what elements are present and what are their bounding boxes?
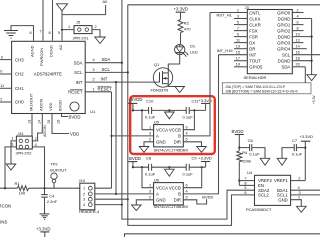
svg-text:14: 14 <box>296 45 300 49</box>
svg-text:2: 2 <box>95 25 97 29</box>
U1 right pin labels <box>68 60 83 94</box>
capacitor C11 <box>185 107 187 114</box>
wire SCL1 off right edge <box>291 194 320 196</box>
wire MUXOUT pin <box>31 114 33 137</box>
svg-text:1: 1 <box>149 184 151 188</box>
svg-text:3: 3 <box>299 191 301 195</box>
svg-text:CH1: CH1 <box>15 86 24 91</box>
svg-text:3: 3 <box>93 68 95 72</box>
svg-text:C6: C6 <box>248 138 254 143</box>
wire BVDD pin <box>62 113 69 116</box>
svg-text:A0: A0 <box>58 44 63 50</box>
wire CH2 <box>0 73 12 75</box>
svg-text:PCA9306DCT: PCA9306DCT <box>246 207 272 212</box>
svg-text:ONS: ONS <box>0 220 7 225</box>
svg-text:AGND: AGND <box>30 45 35 57</box>
wire DGND pin <box>52 0 54 41</box>
svg-text:4: 4 <box>186 132 188 136</box>
svg-text:2: 2 <box>0 98 2 102</box>
resistor R1 <box>0 187 18 189</box>
svg-text:+3.3VD: +3.3VD <box>174 7 188 12</box>
U4 pin numbers <box>244 177 246 195</box>
pin SDA wire <box>85 62 122 64</box>
svg-text:R4: R4 <box>242 150 248 155</box>
wire SDA vertical to U4 SDA2 <box>122 0 255 219</box>
svg-text:Q1: Q1 <box>154 62 160 67</box>
wire PWRCON pin <box>42 0 44 41</box>
U1 bottom pin labels rotated <box>29 93 63 111</box>
svg-text:11: 11 <box>236 39 240 43</box>
wire ADCIN pin <box>32 114 42 141</box>
svg-text:J10: J10 <box>79 178 86 183</box>
wire U4 GND <box>291 200 302 207</box>
svg-text:RCON: RCON <box>0 203 11 208</box>
svg-text:0.1uF: 0.1uF <box>249 151 260 156</box>
svg-text:GPIO2: GPIO2 <box>277 28 291 33</box>
svg-text:0.1uF: 0.1uF <box>183 114 194 119</box>
level shifter U5 SN74LVC1T45DBV <box>154 125 184 147</box>
jumper J5 JPR-2X1 <box>74 26 92 34</box>
svg-text:J3A (TOP) = SAM TSM-110-01-L-D: J3A (TOP) = SAM TSM-110-01-L-DV-P <box>225 85 286 89</box>
svg-text:SN74LVC1T45DBV: SN74LVC1T45DBV <box>154 148 189 153</box>
connector J3 SERIALHDR <box>247 10 292 74</box>
bottom pin numbers rotated 13 14 15 16 <box>28 120 61 124</box>
wire U5 VCCA <box>142 110 154 129</box>
svg-text:4: 4 <box>93 58 95 62</box>
svg-text:6: 6 <box>244 191 246 195</box>
wire SDA1 off right edge <box>291 189 320 191</box>
svg-text:GND: GND <box>278 197 288 202</box>
node A0 junction <box>61 29 63 31</box>
svg-text:BUFOUT: BUFOUT <box>50 168 67 173</box>
ground C6 <box>260 158 270 165</box>
wire CH3 <box>0 59 12 61</box>
svg-text:CNTL: CNTL <box>249 10 261 15</box>
U5 pin numbers <box>149 126 188 142</box>
wire INT vertical <box>115 82 117 194</box>
svg-text:2: 2 <box>298 177 300 181</box>
RESET overline inside <box>70 88 83 90</box>
svg-text:DX: DX <box>249 40 255 45</box>
svg-text:0.1uF: 0.1uF <box>292 151 303 156</box>
svg-text:5: 5 <box>58 31 60 35</box>
svg-text:7: 7 <box>244 177 246 181</box>
svg-text:FDN337N: FDN337N <box>151 88 169 93</box>
svg-text:8: 8 <box>49 31 51 35</box>
wire J11 pin3 down to PWRCON <box>5 147 16 188</box>
ground U4 <box>297 206 307 212</box>
svg-text:VREF1: VREF1 <box>274 178 288 183</box>
svg-text:DGND: DGND <box>278 59 291 64</box>
svg-text:15: 15 <box>47 120 51 124</box>
wire RESET vertical <box>111 92 113 188</box>
svg-text:CLKR: CLKR <box>249 22 260 27</box>
svg-text:VCCA VCCB: VCCA VCCB <box>156 127 181 132</box>
svg-text:+3.3V: +3.3V <box>312 94 316 104</box>
wire J10 pin2 / INT to U6 A <box>95 193 154 195</box>
svg-text:3: 3 <box>83 198 85 202</box>
svg-text:C8: C8 <box>146 156 152 161</box>
wire J5 pin2 <box>92 30 100 37</box>
wire RST_H1 <box>210 12 247 14</box>
ground U5 <box>139 147 149 153</box>
svg-text:0.1uF: 0.1uF <box>145 171 156 176</box>
wire AGND pin <box>11 26 34 41</box>
svg-text:A: A <box>156 192 159 197</box>
svg-text:DIR: DIR <box>174 197 181 202</box>
wire U6 GND <box>136 200 153 205</box>
wire J11 pin4 to C4 node <box>32 147 44 188</box>
svg-text:LED: LED <box>190 50 198 55</box>
resistor R4 200k <box>237 151 242 162</box>
wire RESET into U5 A <box>112 135 154 137</box>
svg-text:2: 2 <box>93 78 95 82</box>
svg-text:DGND: DGND <box>49 45 54 57</box>
svg-text:TOUT: TOUT <box>249 59 261 64</box>
svg-text:SCL: SCL <box>74 70 83 75</box>
svg-text:U1: U1 <box>90 109 96 114</box>
svg-text:GPIO0: GPIO0 <box>277 10 291 15</box>
svg-text:2: 2 <box>35 137 37 141</box>
pin RESET wire <box>85 91 111 93</box>
wire top rail to right edge <box>128 4 320 6</box>
next section frame (cut at bottom) <box>125 234 320 237</box>
svg-text:13: 13 <box>236 45 240 49</box>
svg-text:17: 17 <box>236 57 240 61</box>
capacitor C6 <box>238 147 240 149</box>
J3 left pin labels <box>249 10 263 69</box>
svg-text:2: 2 <box>297 8 299 12</box>
svg-text:+3.3VD: +3.3VD <box>198 156 212 161</box>
svg-text:RESET: RESET <box>68 90 83 95</box>
resistor R2 470 <box>178 20 183 33</box>
svg-text:MUXOUT: MUXOUT <box>29 93 34 111</box>
svg-text:GND: GND <box>156 197 166 202</box>
wire J10 pin3 <box>95 198 128 200</box>
svg-text:6: 6 <box>30 31 32 35</box>
wire INT_H15 from J3 pin15 <box>219 54 248 56</box>
svg-text:2: 2 <box>83 192 85 196</box>
svg-text:3: 3 <box>149 132 151 136</box>
svg-text:1: 1 <box>68 25 70 29</box>
svg-text:INT_H15: INT_H15 <box>217 48 234 53</box>
capacitor C10 <box>148 107 150 114</box>
svg-text:1: 1 <box>11 137 13 141</box>
svg-text:2.2nF: 2.2nF <box>47 199 58 204</box>
wire EN <box>239 184 254 186</box>
wire J11 pin1 to ground <box>11 141 16 164</box>
svg-text:U6: U6 <box>154 178 160 183</box>
highlight red box <box>130 96 215 154</box>
svg-text:6: 6 <box>297 21 299 25</box>
svg-text:5: 5 <box>237 21 239 25</box>
svg-text:DGND: DGND <box>278 16 291 21</box>
svg-text:BVDD: BVDD <box>69 115 81 120</box>
op-amp U1 ADS7924IRTE body <box>12 41 86 113</box>
svg-text:RST_H1: RST_H1 <box>217 13 233 18</box>
wire CH0 <box>0 101 12 103</box>
capacitor C4 <box>43 187 45 189</box>
svg-text:ADCIN: ADCIN <box>43 125 47 137</box>
J3 left pin numbers <box>236 8 240 66</box>
svg-text:R1: R1 <box>15 181 21 186</box>
ground U6 <box>132 205 142 211</box>
svg-text:4: 4 <box>83 203 85 207</box>
svg-text:INT: INT <box>76 80 83 85</box>
svg-text:2: 2 <box>149 196 151 200</box>
wire Q1 source to ground <box>168 84 179 87</box>
svg-text:15: 15 <box>236 51 240 55</box>
svg-text:13: 13 <box>28 120 32 124</box>
ground AGND earth symbol <box>4 31 18 39</box>
wire J10 pin4 <box>95 204 122 206</box>
svg-text:C10: C10 <box>146 98 154 103</box>
capacitor C9 <box>185 164 187 171</box>
capacitor C8 <box>148 164 150 171</box>
svg-text:HEADER-4: HEADER-4 <box>79 209 100 214</box>
svg-text:7: 7 <box>237 27 239 31</box>
ground triangle at J5 <box>95 37 105 44</box>
svg-text:9: 9 <box>237 33 239 37</box>
svg-text:BVDD: BVDD <box>131 97 143 102</box>
ground triangle J11 pin1 <box>6 164 16 170</box>
svg-text:SDA: SDA <box>281 65 290 70</box>
svg-text:INT: INT <box>249 53 256 58</box>
svg-text:J3B (BOTTOM) = SAM SSW-110-22-: J3B (BOTTOM) = SAM SSW-110-22-F-D-VS-K <box>225 90 298 94</box>
wire U6 B to J3 INT_H15 <box>183 55 218 194</box>
J3 left stubs <box>234 13 247 67</box>
svg-text:FSR: FSR <box>249 34 258 39</box>
svg-text:A: A <box>156 134 159 139</box>
svg-text:ADCIN: ADCIN <box>38 98 43 111</box>
wire VREF1 <box>291 180 306 182</box>
svg-text:+3.3VD: +3.3VD <box>36 226 50 231</box>
svg-text:20: 20 <box>296 63 300 67</box>
svg-text:DR: DR <box>249 47 255 52</box>
svg-text:5: 5 <box>186 138 188 142</box>
svg-text:16: 16 <box>296 51 300 55</box>
pin INT wire to Q1 gate <box>85 81 159 83</box>
svg-text:B: B <box>178 134 181 139</box>
svg-text:5: 5 <box>244 186 246 190</box>
ground between C10 C11 <box>168 109 170 111</box>
ground between C8 C9 <box>168 166 170 168</box>
ground flipped triangle above A0 <box>57 4 68 11</box>
svg-text:SDA: SDA <box>102 57 111 62</box>
note box J3A J3B <box>222 83 311 94</box>
svg-text:FSX: FSX <box>249 28 257 33</box>
svg-text:BVDD: BVDD <box>202 195 213 200</box>
svg-text:18: 18 <box>296 57 300 61</box>
svg-text:GPIO1: GPIO1 <box>277 22 291 27</box>
svg-text:CH2: CH2 <box>15 72 24 77</box>
svg-text:VDD: VDD <box>70 132 79 137</box>
wire cell1 rail <box>133 109 149 111</box>
wire VDD pin <box>52 113 69 133</box>
svg-text:SCL: SCL <box>282 53 291 58</box>
svg-text:GPIO4: GPIO4 <box>277 47 291 52</box>
svg-text:+3.3VD: +3.3VD <box>300 134 314 139</box>
svg-text:16: 16 <box>57 120 61 124</box>
svg-text:CH0: CH0 <box>15 100 24 105</box>
J3 right stubs <box>292 13 320 67</box>
svg-text:3: 3 <box>237 14 239 18</box>
svg-text:6: 6 <box>186 184 188 188</box>
wire DGND rail <box>311 19 313 75</box>
svg-text:BVDD: BVDD <box>232 129 244 134</box>
wire LED to Q1 drain <box>168 54 179 73</box>
svg-text:100: 100 <box>19 190 26 195</box>
svg-text:U4: U4 <box>247 170 253 175</box>
svg-text:19: 19 <box>236 63 240 67</box>
svg-text:1: 1 <box>149 126 151 130</box>
svg-text:DGND: DGND <box>278 34 291 39</box>
svg-text:GPIO5: GPIO5 <box>249 65 263 70</box>
svg-text:11: 11 <box>0 84 4 88</box>
svg-text:C7: C7 <box>292 138 298 143</box>
svg-text:BVDD: BVDD <box>58 100 63 111</box>
svg-text:2: 2 <box>149 138 151 142</box>
ground earth under C4 <box>40 214 50 220</box>
svg-text:4: 4 <box>298 186 300 190</box>
power +3.3VD bottom <box>44 232 46 237</box>
jumper J11 JPR-2X2 <box>16 136 32 149</box>
svg-text:SCL: SCL <box>102 67 111 72</box>
wire U5 GND <box>144 142 154 147</box>
svg-text:4: 4 <box>186 190 188 194</box>
svg-text:12: 12 <box>296 39 300 43</box>
wire SCL vertical to U4 SCL2 <box>128 5 255 226</box>
svg-text:1: 1 <box>93 87 95 91</box>
wire TP2 stem <box>53 183 55 188</box>
svg-text:ADS7924IRTE: ADS7924IRTE <box>34 72 62 77</box>
svg-text:B: B <box>178 192 181 197</box>
svg-text:D1: D1 <box>190 44 196 49</box>
svg-text:C9: C9 <box>192 156 198 161</box>
svg-text:10: 10 <box>296 33 300 37</box>
power +3.3VD (cell2) <box>201 166 203 168</box>
svg-text:3: 3 <box>11 143 13 147</box>
svg-text:R2: R2 <box>184 21 190 26</box>
wire U5 VCCB <box>183 110 194 129</box>
pin numbers 9 10 11 12 <box>0 55 4 101</box>
wire SDA down behind note box <box>304 67 306 83</box>
svg-text:9: 9 <box>1 55 3 59</box>
ground Q1 <box>175 87 185 93</box>
svg-text:3: 3 <box>149 190 151 194</box>
svg-text:200k: 200k <box>242 158 251 163</box>
svg-text:GPIO3: GPIO3 <box>277 40 291 45</box>
right pin numbers 4 3 2 1 <box>93 58 95 91</box>
svg-text:U5: U5 <box>154 120 160 125</box>
ground C7 <box>277 158 287 165</box>
svg-text:7: 7 <box>40 30 42 34</box>
pin labels CH3 CH2 CH1 CH0 <box>15 57 24 104</box>
svg-text:A0: A0 <box>103 0 109 4</box>
wire U6 DIR to BVDD <box>183 199 206 204</box>
pin SCL wire <box>85 71 128 73</box>
svg-text:SN74LVC1T45DBV: SN74LVC1T45DBV <box>154 204 189 209</box>
level shifter U6 SN74LVC1T45DBV <box>154 183 184 205</box>
svg-text:1: 1 <box>83 187 85 191</box>
J3 right pin numbers <box>296 8 300 66</box>
svg-text:DIR: DIR <box>174 139 181 144</box>
wire U5 DIR <box>183 142 201 147</box>
svg-text:1: 1 <box>237 8 239 12</box>
svg-text:J11: J11 <box>18 131 25 136</box>
level translator U4 PCA9306DCT <box>255 175 291 205</box>
wire A0 net <box>62 5 106 41</box>
capacitor C7 <box>304 147 306 149</box>
wire J10 pin1 to RESET vertical <box>95 187 112 189</box>
wire U5 B to RST_H1 <box>183 13 210 136</box>
svg-text:VCCA VCCB: VCCA VCCB <box>156 185 181 190</box>
svg-text:0.1uF: 0.1uF <box>183 171 194 176</box>
svg-text:TP2: TP2 <box>50 161 58 166</box>
svg-text:0: 0 <box>0 70 2 74</box>
svg-text:6: 6 <box>186 126 188 130</box>
wire U6 VCCA <box>142 167 154 188</box>
wire CH1 <box>0 87 12 89</box>
wire J5 pin1 <box>62 29 74 31</box>
wire U6 VCCB <box>183 167 201 188</box>
svg-text:14: 14 <box>37 120 41 124</box>
ground U5 DIR <box>197 147 207 153</box>
svg-text:BVDD: BVDD <box>129 156 141 161</box>
top pin numbers <box>30 30 61 36</box>
svg-text:SDA: SDA <box>74 60 83 65</box>
svg-text:CH3: CH3 <box>15 57 24 62</box>
J3 right pin labels <box>277 10 291 69</box>
svg-text:5: 5 <box>186 196 188 200</box>
transistor Q1 FDN337N <box>153 68 172 87</box>
svg-text:SERIALHDR: SERIALHDR <box>244 75 267 80</box>
U1 top pin labels rotated <box>30 44 64 66</box>
svg-text:8: 8 <box>244 181 246 185</box>
svg-text:JPR-2X2: JPR-2X2 <box>16 151 33 156</box>
svg-text:CLKX: CLKX <box>249 16 260 21</box>
power +3.3VD (cell1) <box>193 109 195 111</box>
svg-text:PWRCON: PWRCON <box>39 48 44 66</box>
svg-text:4: 4 <box>297 14 299 18</box>
svg-text:8: 8 <box>297 27 299 31</box>
svg-text:SCL2: SCL2 <box>258 193 269 198</box>
svg-text:JPR-2X1: JPR-2X1 <box>73 36 90 41</box>
U1 thermal pad circle <box>70 102 79 111</box>
ground DGND <box>307 75 317 81</box>
svg-text:VDD: VDD <box>48 102 53 111</box>
svg-text:INT: INT <box>101 77 108 82</box>
header J10 <box>80 183 95 210</box>
wire VREF2 <box>238 180 240 182</box>
LED D1 <box>175 45 185 55</box>
svg-text:GND: GND <box>156 139 166 144</box>
svg-text:1: 1 <box>298 196 300 200</box>
svg-text:470: 470 <box>184 27 191 32</box>
